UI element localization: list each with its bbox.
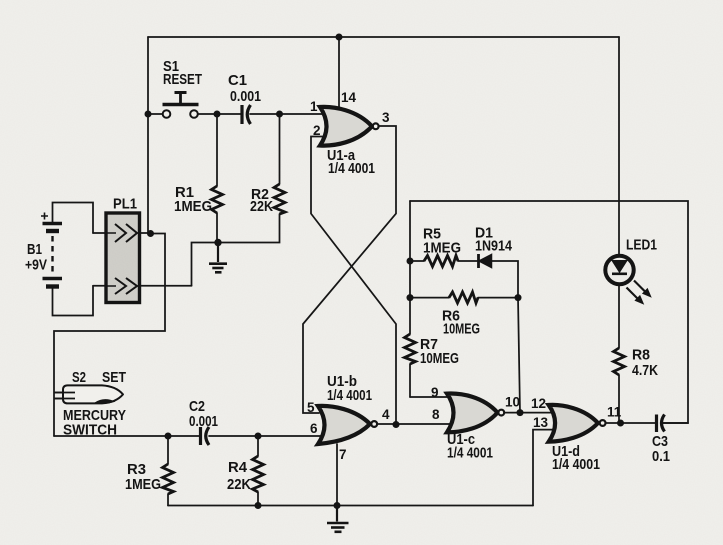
wire R4 branch (257, 436, 259, 456)
wire bottom ground row (168, 505, 533, 507)
svg-text:1/4 4001: 1/4 4001 (327, 387, 372, 404)
svg-text:14: 14 (341, 90, 357, 105)
wire R6 row right (478, 297, 518, 299)
svg-text:R8: R8 (632, 347, 650, 364)
svg-text:1N914: 1N914 (475, 238, 513, 255)
ground below pin7 (327, 506, 349, 532)
svg-text:13: 13 (533, 415, 549, 430)
NOR gate U1-d (531, 396, 622, 473)
wire U1-a output cross to pin5 (303, 126, 396, 413)
svg-text:0.001: 0.001 (189, 413, 218, 430)
node pin7 ground (334, 502, 341, 509)
node R2 top (276, 111, 283, 118)
wire pin7 drop (336, 444, 338, 506)
ground below R1 R2 (209, 243, 227, 273)
wire U1-b output to pin8 (378, 423, 452, 425)
svg-text:6: 6 (310, 421, 318, 436)
node U1-c output (517, 409, 524, 416)
wire R6 row left (410, 297, 449, 299)
wire R2 branch (279, 114, 281, 184)
wire R5 row left (410, 260, 424, 262)
svg-text:1: 1 (310, 99, 318, 114)
svg-text:9: 9 (431, 385, 439, 400)
capacitor C2 0.001 (189, 398, 218, 445)
wire R1 bottom (216, 213, 218, 243)
svg-text:0.1: 0.1 (652, 448, 670, 465)
wire left vertical rail (147, 37, 149, 234)
wire switch contact upper (55, 392, 76, 394)
wire U1-c output to pin12 (504, 412, 554, 414)
wire battery plus loop (53, 203, 94, 234)
svg-text:22K: 22K (227, 476, 251, 493)
svg-text:0.001: 0.001 (230, 88, 261, 105)
svg-text:3: 3 (382, 110, 390, 125)
svg-text:PL1: PL1 (113, 196, 137, 213)
NOR gate U1-a (310, 90, 390, 177)
svg-text:1/4 4001: 1/4 4001 (447, 445, 493, 462)
wire R3 branch (167, 436, 169, 464)
svg-text:RESET: RESET (163, 71, 202, 88)
wire top V+ rail (148, 36, 619, 38)
svg-text:SWITCH: SWITCH (63, 422, 117, 439)
svg-text:LED1: LED1 (626, 237, 657, 254)
wire R5 to D1 (458, 260, 477, 262)
svg-text:S2: S2 (72, 369, 86, 386)
NOR gate U1-b (307, 373, 390, 462)
svg-text:2: 2 (313, 123, 321, 138)
wire C2 row left (54, 435, 199, 437)
wire D1 to right vertical (492, 261, 518, 298)
svg-text:1/4 4001: 1/4 4001 (328, 160, 375, 177)
svg-text:5: 5 (307, 400, 315, 415)
battery B1 +9V (25, 213, 62, 287)
svg-text:10: 10 (505, 395, 520, 410)
optocoupler PL1 (106, 196, 140, 303)
node R1 ground (214, 239, 221, 246)
wire ground row to PL1 pin2 (192, 243, 219, 286)
svg-text:1MEG: 1MEG (125, 476, 161, 493)
resistor R1 1MEG (174, 184, 223, 215)
svg-text:B1: B1 (27, 241, 42, 258)
wire pin9 stub (410, 396, 452, 398)
svg-text:1MEG: 1MEG (174, 198, 212, 215)
svg-text:1MEG: 1MEG (423, 240, 461, 257)
switch S2 SET mercury switch (55, 369, 127, 439)
svg-text:4: 4 (382, 407, 390, 422)
svg-text:10MEG: 10MEG (443, 321, 480, 338)
node pin14 on V+ rail (336, 34, 343, 41)
node pin11 (617, 420, 624, 427)
node junction dots (145, 34, 625, 510)
wire battery minus loop (53, 286, 94, 316)
resistor R6 10MEG (442, 292, 480, 338)
wire PL1 bottom row (93, 285, 192, 287)
wire pin14 drop (338, 37, 340, 110)
wire LED to R8 (618, 274, 620, 348)
wire S1 to C1 (198, 113, 241, 115)
svg-text:4.7K: 4.7K (632, 362, 658, 379)
svg-text:7: 7 (339, 447, 347, 462)
resistor R2 22K (250, 184, 285, 215)
resistor R3 1MEG (125, 461, 174, 494)
svg-text:8: 8 (432, 407, 440, 422)
wire node to mercury switch (54, 234, 165, 437)
wire R8 to node 11 (618, 375, 620, 423)
wire S1 row left (148, 113, 163, 115)
capacitor C1 0.001 (228, 72, 261, 124)
node R4 top (255, 433, 262, 440)
node U1-b output (393, 421, 400, 428)
wire C2 to pin6 (209, 435, 324, 437)
wire C1 to pin1 (250, 113, 326, 115)
node PL1 right (147, 230, 154, 237)
switch S1 RESET pushbutton (163, 58, 203, 118)
wire R3 bottom (167, 494, 169, 506)
svg-text:1/4 4001: 1/4 4001 (552, 456, 600, 473)
wire U1-d output to C3 (606, 422, 655, 424)
wire PL1 top row (93, 232, 148, 234)
wire R2 bottom (218, 214, 280, 243)
svg-text:11: 11 (607, 405, 622, 420)
resistor R5 1MEG (423, 226, 461, 267)
wire R1 branch (216, 114, 218, 186)
svg-text:C1: C1 (228, 72, 247, 89)
node R5 row left (407, 258, 414, 265)
svg-text:SET: SET (102, 369, 126, 386)
svg-text:+9V: +9V (25, 257, 47, 274)
svg-text:R4: R4 (228, 459, 248, 476)
wire feedback box top and right (410, 201, 688, 423)
node R3 top (165, 433, 172, 440)
node R6 row right (515, 294, 522, 301)
svg-text:22K: 22K (250, 198, 273, 215)
wire switch contact lower (55, 398, 76, 400)
capacitor C3 0.1 (652, 415, 670, 466)
wire feedback left vertical upper (409, 364, 411, 397)
LED1 (605, 237, 657, 304)
wire pin13 riser (533, 430, 554, 506)
node R1 top (214, 111, 221, 118)
node R4 bottom (255, 502, 262, 509)
diode D1 1N914 (475, 225, 513, 269)
resistor R7 10MEG (405, 334, 460, 367)
svg-text:12: 12 (531, 396, 546, 411)
svg-text:10MEG: 10MEG (420, 350, 459, 367)
resistor R4 22K (227, 456, 264, 493)
wire U1-a pin2 cross to U1-b output (311, 137, 396, 425)
wire C3 right (663, 422, 688, 424)
node S1 row on left rail (145, 111, 152, 118)
NOR gate U1-c (431, 385, 520, 462)
wire LED branch top (618, 37, 620, 260)
wire feedback left vertical lower (409, 201, 411, 334)
wire right vertical to U1-c output (518, 298, 520, 413)
node R6 row left (407, 294, 414, 301)
resistor R8 4.7K (614, 347, 659, 380)
wire R4 bottom (257, 492, 259, 506)
